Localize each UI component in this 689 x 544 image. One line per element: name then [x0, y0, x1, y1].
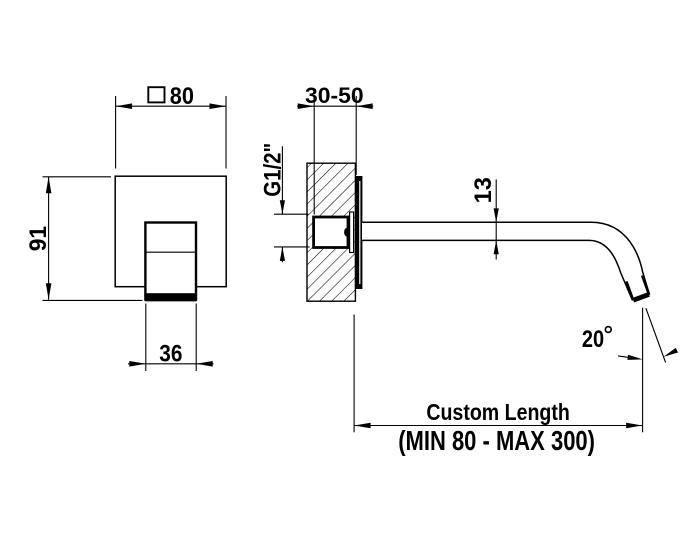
svg-text:30-50: 30-50 [305, 83, 364, 108]
svg-text:13: 13 [470, 177, 497, 203]
svg-text:36: 36 [159, 340, 182, 367]
svg-text:80: 80 [170, 83, 194, 110]
svg-text:G1/2": G1/2" [259, 143, 286, 197]
svg-text:Custom Length: Custom Length [426, 399, 570, 425]
svg-text:(MIN 80 - MAX 300): (MIN 80 - MAX 300) [398, 425, 595, 456]
svg-text:91: 91 [25, 226, 52, 251]
svg-text:20: 20 [582, 326, 604, 353]
